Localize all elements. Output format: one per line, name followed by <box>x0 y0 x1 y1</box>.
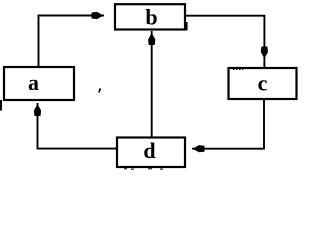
speck near center-left <box>98 89 101 93</box>
wire d to b (straight up) <box>151 31 153 137</box>
box a <box>4 67 74 100</box>
wire b to c (right then down) <box>186 16 264 67</box>
svg-text:c: c <box>258 71 268 96</box>
wire a to b (up then right) <box>39 16 105 67</box>
arrowhead into b (pointing up) <box>148 33 155 45</box>
box b <box>115 4 185 29</box>
svg-text:d: d <box>143 138 155 163</box>
artifact: rough dots under box d bottom edge <box>124 168 127 169</box>
box d <box>117 138 185 168</box>
artifact: thick blob at box b bottom-right corner <box>185 22 188 30</box>
artifact: dotted marks inside box c top-left <box>233 69 235 70</box>
arrowhead into a (pointing up) <box>34 104 41 116</box>
svg-text:b: b <box>145 5 157 30</box>
streak artifact below box a left corner <box>0 100 2 111</box>
arrowhead into c (pointing down) <box>261 47 268 59</box>
arrowhead into b (pointing right) <box>92 12 104 19</box>
box c <box>229 68 297 99</box>
wire c to d (down then left) <box>192 100 264 149</box>
svg-text:a: a <box>28 70 39 95</box>
wire d to a (left then up) <box>38 103 117 149</box>
arrowhead into d (pointing left) <box>193 145 205 152</box>
